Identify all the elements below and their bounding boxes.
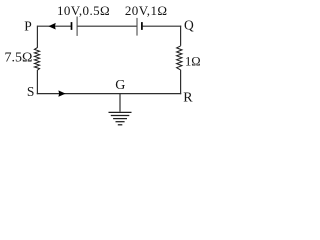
wire: top side battery B1 to battery B2 — [77, 25, 137, 27]
svg-text:20V,1Ω: 20V,1Ω — [125, 3, 168, 18]
wire: right side resistor R2 down to R corner — [180, 70, 182, 94]
current arrow on top wire (pointing left) — [48, 23, 55, 30]
wire: left side P corner down to resistor R1 — [36, 26, 38, 48]
svg-text:Q: Q — [184, 18, 194, 33]
battery B1 tall (positive) plate — [76, 17, 78, 36]
resistor R2 zigzag (1Ω) — [177, 46, 182, 70]
svg-text:G: G — [115, 78, 125, 93]
wire: left side resistor R1 down to S corner — [36, 70, 38, 94]
svg-text:R: R — [183, 91, 193, 106]
wire: bottom side S to R — [37, 93, 181, 95]
ground symbol — [109, 112, 132, 124]
wire: top side battery B2 to Q corner — [143, 25, 182, 27]
wire: right side Q corner down to resistor R2 — [180, 26, 182, 46]
current arrow on bottom wire (pointing right) — [58, 90, 65, 96]
battery B1 short (negative) plate — [71, 22, 73, 30]
svg-text:1Ω: 1Ω — [185, 54, 201, 68]
svg-text:7.5Ω: 7.5Ω — [5, 51, 33, 66]
svg-text:10V,0.5Ω: 10V,0.5Ω — [57, 3, 110, 18]
battery B2 tall (positive) plate — [136, 18, 138, 36]
svg-text:S: S — [27, 84, 35, 99]
battery B2 short (negative) plate — [141, 22, 143, 30]
svg-text:P: P — [24, 19, 32, 34]
resistor R1 zigzag (7.5Ω) — [34, 48, 39, 71]
wire: top side P to battery B1 — [37, 25, 71, 27]
wire: ground stub from node G — [119, 94, 121, 112]
